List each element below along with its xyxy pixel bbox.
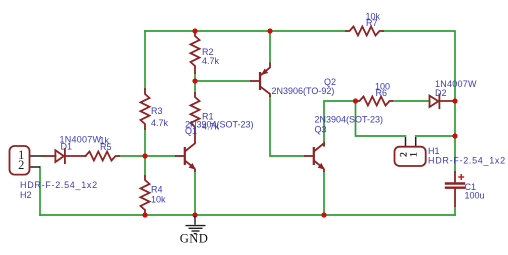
svg-text:Q3: Q3 [315,125,327,135]
svg-text:100u: 100u [465,190,485,200]
svg-text:2N3904(SOT-23): 2N3904(SOT-23) [315,115,384,125]
svg-text:2: 2 [18,158,24,172]
svg-text:HDR-F-2.54_1x2: HDR-F-2.54_1x2 [428,155,506,165]
svg-text:4.7k: 4.7k [151,118,169,128]
svg-text:4.7k: 4.7k [202,56,220,66]
svg-text:Q1: Q1 [185,126,197,136]
svg-text:R5: R5 [100,142,112,152]
svg-text:R7: R7 [366,18,378,28]
svg-text:R6: R6 [376,88,388,98]
svg-text:HDR-F-2.54_1x2: HDR-F-2.54_1x2 [20,180,98,190]
svg-text:R4: R4 [151,184,163,194]
svg-text:GND: GND [180,231,209,245]
svg-text:R3: R3 [151,106,163,116]
svg-text:10k: 10k [151,194,166,204]
svg-text:1: 1 [410,152,420,157]
svg-text:H2: H2 [20,190,32,200]
svg-text:D2: D2 [435,88,447,98]
svg-text:D1: D1 [61,141,73,151]
svg-text:2N3906(TO-92): 2N3906(TO-92) [272,86,335,96]
svg-text:2: 2 [399,152,409,157]
